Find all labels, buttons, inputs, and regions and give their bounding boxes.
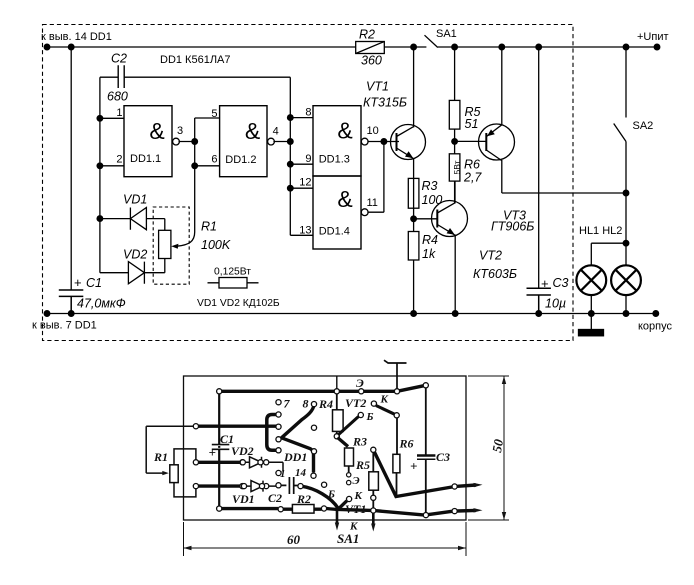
capacitor C3 on board bbox=[425, 388, 427, 513]
svg-text:VD2: VD2 bbox=[231, 444, 254, 458]
svg-text:VD2: VD2 bbox=[123, 248, 147, 262]
svg-text:+: + bbox=[74, 275, 82, 290]
svg-text:6: 6 bbox=[211, 153, 217, 165]
svg-text:R6: R6 bbox=[464, 158, 480, 172]
arrow down SA1 left bbox=[336, 511, 339, 525]
pad 7 bbox=[276, 400, 281, 405]
capacitor C3 bbox=[538, 47, 540, 288]
svg-text:R1: R1 bbox=[153, 450, 168, 464]
svg-text:7: 7 bbox=[284, 397, 291, 411]
svg-text:&: & bbox=[149, 118, 164, 144]
node output3 bbox=[192, 139, 198, 145]
svg-text:К: К bbox=[380, 394, 389, 406]
gate DD1.1 bbox=[124, 106, 172, 177]
diode VD1 bbox=[100, 208, 165, 231]
svg-text:10: 10 bbox=[367, 125, 379, 137]
svg-text:10µ: 10µ bbox=[545, 297, 566, 311]
pads top trace bbox=[217, 389, 222, 394]
svg-text:0,125Вт: 0,125Вт bbox=[214, 267, 251, 278]
resistor R2 bbox=[356, 42, 385, 54]
wire R4 to rail bbox=[413, 260, 415, 314]
svg-text:R3: R3 bbox=[422, 179, 438, 193]
svg-text:VT2: VT2 bbox=[345, 396, 366, 410]
svg-text:C3: C3 bbox=[436, 450, 450, 464]
capacitor C1 bbox=[59, 290, 84, 314]
svg-text:2,7: 2,7 bbox=[463, 171, 482, 185]
trace R4 to R3 bbox=[338, 438, 349, 447]
trace arrow out right upper bbox=[457, 485, 476, 486]
capacitor C2 bbox=[100, 65, 290, 88]
svg-text:680: 680 bbox=[107, 90, 128, 104]
svg-text:SA1: SA1 bbox=[337, 531, 359, 546]
svg-text:R5: R5 bbox=[355, 458, 370, 472]
trace C2 to bottom bbox=[301, 486, 339, 509]
switch SA1 bbox=[425, 35, 438, 47]
dashed tuning box around R1 bbox=[153, 207, 189, 284]
svg-text:КТ603Б: КТ603Б bbox=[473, 267, 517, 281]
svg-text:Э: Э bbox=[356, 376, 364, 390]
trace diag R5pad to bend bbox=[375, 452, 453, 496]
svg-text:1: 1 bbox=[116, 107, 122, 119]
capacitor C1 on board bbox=[213, 445, 229, 449]
wire gate2 output bbox=[273, 141, 290, 143]
svg-text:VT1: VT1 bbox=[366, 80, 389, 94]
dimension 60 bbox=[184, 522, 467, 556]
svg-text:8: 8 bbox=[303, 397, 309, 411]
svg-text:VD1 VD2 КД102Б: VD1 VD2 КД102Б bbox=[197, 298, 280, 309]
svg-text:R2: R2 bbox=[359, 28, 375, 42]
svg-text:&: & bbox=[245, 118, 260, 144]
trace row VD1 bbox=[199, 484, 240, 487]
antenna T stub bbox=[384, 360, 407, 391]
svg-text:R2: R2 bbox=[296, 492, 311, 506]
svg-text:&: & bbox=[337, 118, 352, 144]
dimension 50 bbox=[468, 376, 509, 520]
svg-text:Б: Б bbox=[366, 411, 374, 423]
svg-text:100: 100 bbox=[422, 193, 443, 207]
svg-text:DD1.2: DD1.2 bbox=[225, 154, 256, 166]
svg-text:R1: R1 bbox=[201, 220, 217, 234]
resistor R6 on board bbox=[396, 418, 399, 495]
svg-text:К: К bbox=[354, 490, 363, 502]
svg-text:100K: 100K bbox=[201, 238, 231, 252]
resistor R6 bbox=[449, 154, 460, 181]
switch SA2 bbox=[614, 47, 626, 193]
svg-text:ГТ906Б: ГТ906Б bbox=[491, 220, 534, 234]
trace left vertical C1 bbox=[218, 391, 220, 508]
transistor VT2 bbox=[432, 201, 468, 237]
svg-text:8: 8 bbox=[305, 107, 311, 119]
diode VD2 on board bbox=[245, 457, 283, 471]
svg-text:+Uпит: +Uпит bbox=[637, 31, 669, 43]
PCB board outline bbox=[184, 376, 467, 520]
trace row VD2 bbox=[199, 461, 240, 464]
svg-text:C3: C3 bbox=[553, 276, 569, 290]
svg-text:к выв. 14 DD1: к выв. 14 DD1 bbox=[41, 31, 112, 43]
svg-text:DD1 К561ЛА7: DD1 К561ЛА7 bbox=[160, 54, 231, 66]
svg-text:R4: R4 bbox=[422, 233, 438, 247]
resistor R4 on board bbox=[336, 394, 338, 434]
transistor VT2 pads bbox=[371, 401, 376, 406]
wire bottom rail bbox=[47, 313, 656, 315]
svg-text:C2: C2 bbox=[111, 52, 127, 66]
svg-text:5Вт: 5Вт bbox=[452, 160, 462, 174]
svg-text:DD1.1: DD1.1 bbox=[130, 153, 161, 165]
svg-text:51: 51 bbox=[465, 117, 479, 131]
svg-text:C2: C2 bbox=[268, 491, 282, 505]
svg-text:DD1.3: DD1.3 bbox=[319, 154, 350, 166]
DD1 pin pads right column bbox=[311, 425, 316, 430]
resistor power note 0,125Вт bbox=[214, 267, 251, 278]
gate DD1.4 bbox=[313, 176, 361, 249]
svg-text:SA2: SA2 bbox=[633, 120, 654, 132]
lamp HL2 bbox=[611, 265, 641, 295]
pads R1 bbox=[193, 424, 198, 429]
svg-text:DD1.4: DD1.4 bbox=[319, 226, 350, 238]
trace hook row1 bbox=[199, 425, 277, 428]
svg-text:R3: R3 bbox=[352, 435, 367, 449]
transistor VT3 bbox=[479, 124, 515, 160]
node к выв.14 bbox=[44, 44, 50, 50]
svg-text:14: 14 bbox=[295, 467, 307, 479]
resistor R3 bbox=[408, 178, 419, 208]
wire R3 to R4 bbox=[414, 208, 438, 231]
svg-text:R4: R4 bbox=[318, 397, 333, 411]
svg-text:VD1: VD1 bbox=[232, 492, 255, 506]
svg-text:корпус: корпус bbox=[638, 321, 673, 333]
svg-text:SA1: SA1 bbox=[436, 28, 457, 40]
svg-text:VT1: VT1 bbox=[345, 502, 366, 516]
dashed enclosure border bbox=[43, 25, 574, 341]
svg-text:VD1: VD1 bbox=[123, 193, 147, 207]
resistor R3 on board bbox=[345, 448, 354, 466]
diode VD1 on board bbox=[245, 481, 276, 492]
ground корпус bbox=[590, 314, 592, 330]
svg-text:3: 3 bbox=[177, 125, 183, 137]
svg-text:4: 4 bbox=[273, 126, 279, 138]
svg-text:2: 2 bbox=[116, 153, 122, 165]
svg-text:&: & bbox=[337, 186, 352, 212]
diode VD2 bbox=[100, 262, 144, 284]
svg-text:5: 5 bbox=[211, 108, 217, 120]
svg-text:КТ315Б: КТ315Б bbox=[363, 96, 407, 110]
svg-text:VT2: VT2 bbox=[479, 249, 502, 263]
wire top rail bbox=[47, 46, 657, 48]
wire R1 bottom bbox=[144, 259, 164, 273]
wire gate outputs join bbox=[367, 142, 399, 213]
wire R5-R6 node bbox=[455, 129, 487, 154]
svg-text:DD1: DD1 bbox=[283, 450, 307, 464]
trace bottom rail pcb bbox=[222, 509, 452, 515]
svg-text:1k: 1k bbox=[422, 247, 436, 261]
svg-text:Б: Б bbox=[327, 489, 335, 501]
svg-text:HL1 HL2: HL1 HL2 bbox=[579, 225, 622, 237]
svg-text:9: 9 bbox=[305, 153, 311, 165]
capacitor C2 on board bbox=[281, 477, 298, 494]
svg-text:+: + bbox=[410, 459, 417, 474]
resistor R5 on board bbox=[372, 452, 374, 508]
svg-text:+: + bbox=[209, 445, 216, 460]
trace arrow out right lower bbox=[457, 509, 476, 513]
wire input bus node A bbox=[100, 77, 124, 273]
svg-text:11: 11 bbox=[367, 197, 378, 209]
resistor R2 on board bbox=[292, 505, 314, 514]
svg-text:13: 13 bbox=[299, 224, 311, 236]
arrow down SA1 right bbox=[372, 513, 375, 526]
wire lamps branch bbox=[591, 193, 626, 265]
DD1 bracket trace bbox=[267, 415, 279, 451]
transistor VT1 bbox=[391, 125, 426, 160]
svg-text:к выв. 7 DD1: к выв. 7 DD1 bbox=[32, 320, 97, 332]
trace top rail pcb bbox=[219, 385, 426, 391]
gate DD1.2 bbox=[220, 106, 267, 177]
potentiometer R1 bbox=[159, 230, 171, 258]
label DD1 type bbox=[160, 54, 231, 66]
svg-text:R6: R6 bbox=[399, 437, 414, 451]
wire right bus bbox=[290, 77, 313, 235]
resistor R5 bbox=[454, 47, 456, 100]
svg-text:+: + bbox=[541, 276, 549, 291]
svg-text:12: 12 bbox=[299, 176, 311, 188]
lamp HL1 bbox=[576, 265, 606, 295]
resistor R4 bbox=[408, 232, 419, 261]
wire left supply drop bbox=[70, 47, 72, 290]
trace pin8 zigzag bbox=[282, 405, 315, 473]
gate DD1.3 bbox=[313, 106, 361, 176]
wire gate1 output bbox=[179, 141, 195, 143]
svg-text:60: 60 bbox=[287, 532, 301, 547]
trace branch to VT1 K pad bbox=[338, 501, 347, 510]
svg-text:Э: Э bbox=[353, 475, 360, 487]
svg-text:47,0мкФ: 47,0мкФ bbox=[77, 297, 126, 311]
DD1 pin pads left column bbox=[276, 412, 281, 417]
node +Uпит bbox=[411, 44, 417, 50]
wire R6 to VT2 collector bbox=[454, 181, 456, 202]
svg-text:C1: C1 bbox=[86, 276, 102, 290]
svg-text:360: 360 bbox=[361, 54, 382, 68]
pot R1 on board bbox=[170, 465, 178, 483]
